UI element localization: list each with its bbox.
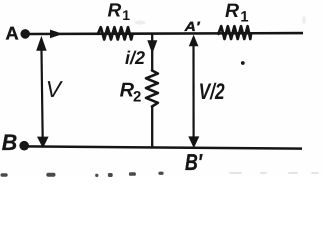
node B bbox=[2, 130, 29, 155]
svg-text:A: A bbox=[5, 23, 18, 44]
svg-text:A′: A′ bbox=[183, 19, 200, 34]
voltage arrow V bbox=[36, 36, 64, 149]
wire middle branch upper bbox=[151, 34, 153, 72]
resistor R1 right bbox=[219, 26, 252, 39]
resistor R2 bbox=[120, 71, 158, 107]
voltage arrow V/2 bbox=[188, 35, 225, 149]
svg-text:R: R bbox=[108, 0, 122, 21]
svg-text:R: R bbox=[225, 0, 239, 22]
svg-text:V: V bbox=[46, 76, 64, 102]
svg-text:1: 1 bbox=[240, 9, 248, 26]
svg-text:2: 2 bbox=[133, 89, 141, 106]
svg-text:B: B bbox=[2, 130, 17, 155]
wire bottom rail B to right bbox=[25, 146, 302, 148]
svg-text:V/2: V/2 bbox=[199, 79, 225, 104]
svg-text:B′: B′ bbox=[185, 149, 203, 175]
node A' bbox=[183, 19, 200, 34]
svg-text:1: 1 bbox=[122, 7, 130, 23]
wire middle branch lower bbox=[151, 106, 153, 148]
current arrow on top wire bbox=[50, 30, 63, 39]
node A bbox=[5, 23, 30, 44]
label R1 right bbox=[225, 0, 249, 26]
current arrow i/2 bbox=[125, 40, 157, 68]
resistor R1 left bbox=[98, 27, 133, 39]
wire top rail A to right bbox=[29, 32, 304, 36]
node B' bbox=[185, 149, 203, 175]
svg-text:i/2: i/2 bbox=[125, 47, 146, 68]
label R1 left bbox=[108, 0, 131, 23]
